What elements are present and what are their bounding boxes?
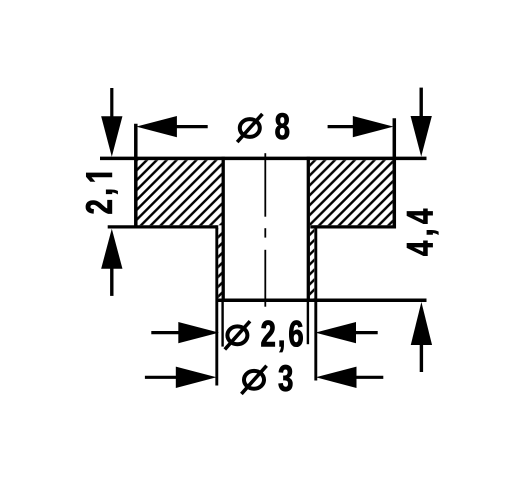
dimension 2,1 bottom arrowhead — [101, 229, 122, 269]
dimension D3 text "O 3" — [241, 365, 292, 394]
flange left edge — [134, 124, 138, 229]
dimension D2,6 text "O 2,6" — [225, 321, 303, 353]
dimension 2,1 text (rotated) — [86, 173, 118, 213]
dimension D8 line left tail — [176, 125, 208, 128]
dimension 4,4 bottom arrowhead — [411, 302, 432, 345]
dimension 4,4 text (rotated) — [407, 209, 438, 256]
dimension D3 left arrowhead — [176, 367, 217, 388]
flange bottom right line — [310, 225, 396, 228]
dimension 2,1 bottom arrow shaft — [110, 268, 113, 296]
centerline — [264, 153, 266, 307]
hole right wall extension — [307, 300, 309, 344]
hatched left flange section — [138, 160, 222, 225]
dimension D3 line left tail — [145, 376, 177, 379]
bottom surface line — [217, 299, 427, 303]
hole left wall — [222, 157, 225, 302]
dimension D3 line right tail — [356, 376, 383, 379]
dimension D3 right arrowhead — [316, 367, 357, 388]
dimension D8 left arrowhead — [136, 116, 177, 137]
hatched left sleeve wall section — [218, 229, 222, 299]
top surface line — [100, 157, 427, 161]
dimension D8 text "O 8" — [237, 113, 289, 142]
hole right wall — [307, 157, 310, 302]
hatched right sleeve wall section — [310, 229, 314, 299]
dimension 4,4 top arrow shaft — [420, 88, 423, 117]
dimension D2,6 left arrowhead — [178, 322, 219, 343]
dimension 2,1 top arrow shaft — [110, 88, 113, 117]
dimension 4,4 top arrowhead — [411, 116, 432, 157]
hole left wall extension — [221, 300, 223, 347]
flange right edge — [393, 118, 397, 228]
dimension D8 right arrowhead — [353, 116, 394, 137]
dimension D2,6 right arrowhead — [315, 322, 356, 343]
dimension D2,6 line left tail — [151, 331, 179, 334]
hatched right flange section — [310, 160, 393, 225]
dimension D8 line right tail — [328, 125, 354, 128]
sleeve outer right wall and extension — [314, 225, 317, 380]
flange bottom left line — [108, 225, 218, 228]
dimension 2,1 top arrowhead — [101, 116, 122, 157]
dimension D2,6 line right tail — [356, 331, 378, 334]
sleeve outer left wall and extension — [215, 225, 218, 385]
dimension 4,4 bottom arrow shaft — [420, 345, 423, 373]
